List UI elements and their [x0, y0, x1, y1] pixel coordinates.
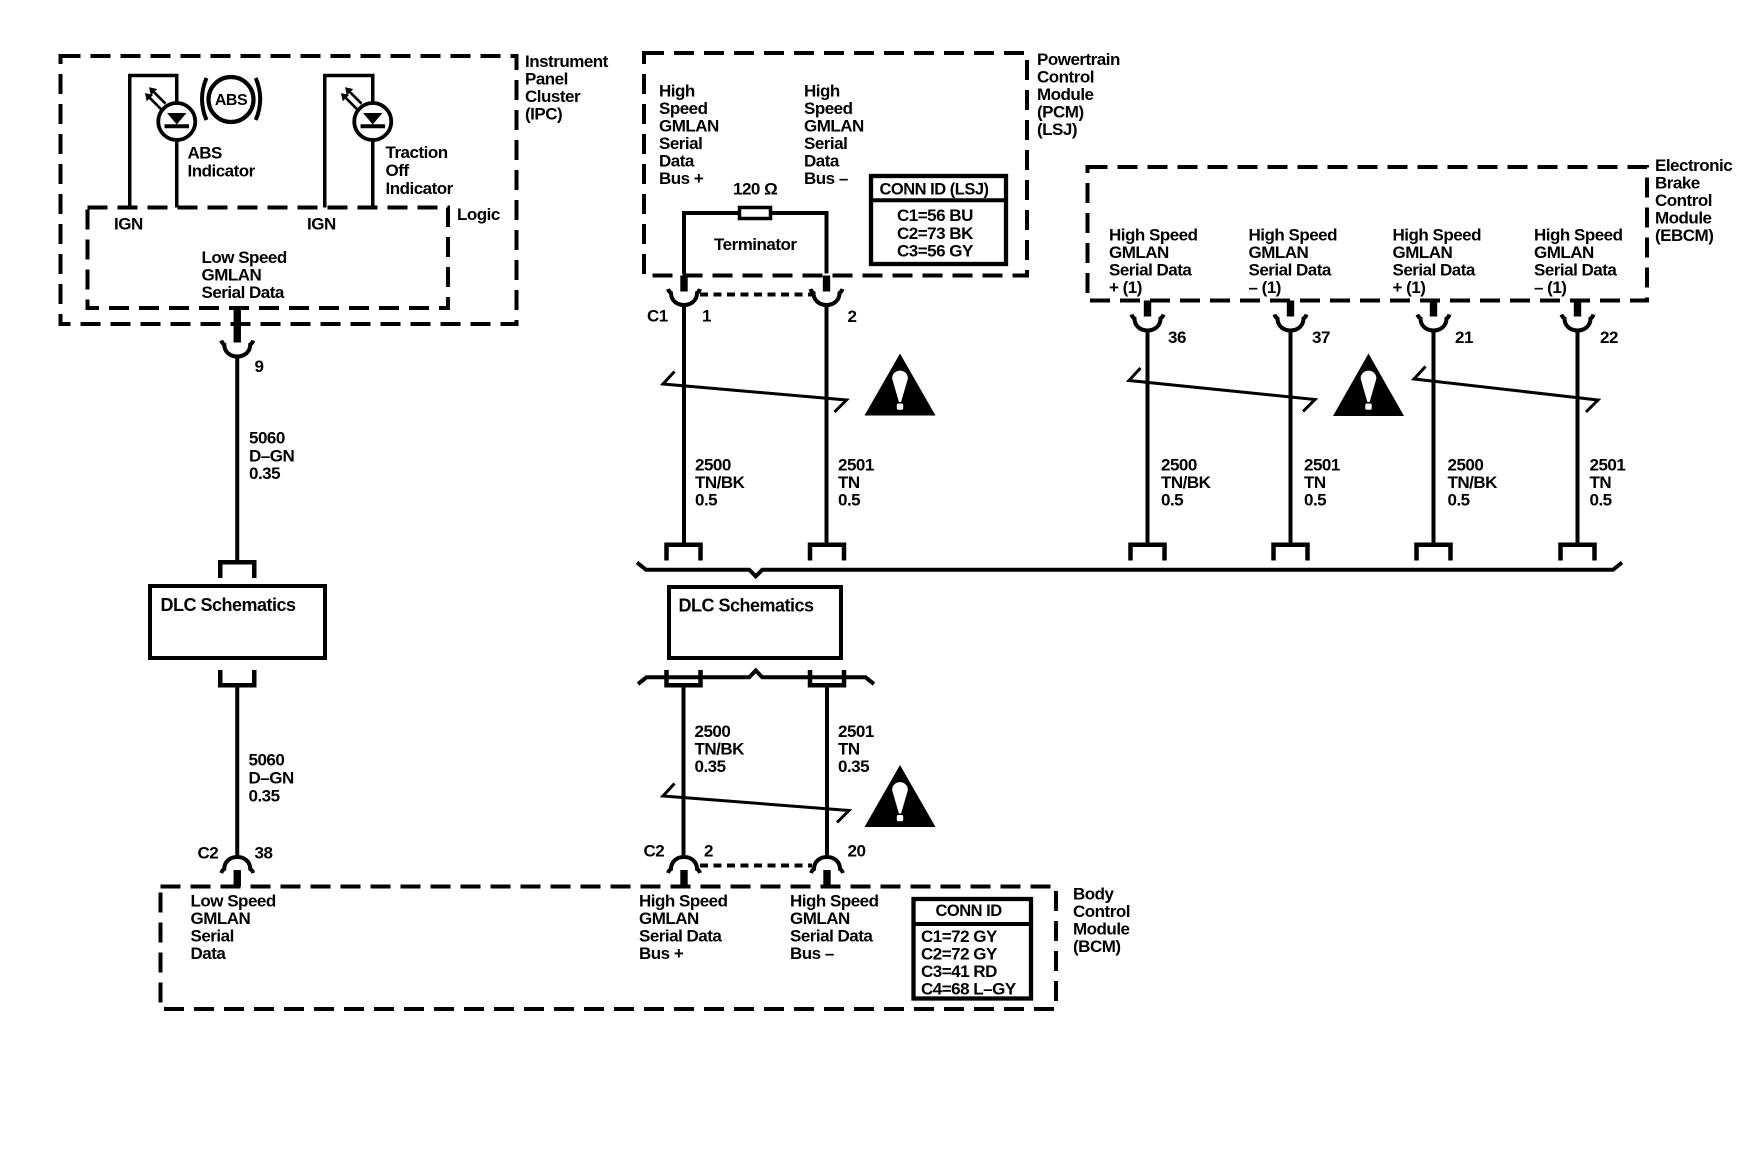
svg-text:CONN ID: CONN ID: [936, 902, 1003, 920]
label High Speed GMLAN Serial Data + (1) (EBCM col 1): [1109, 226, 1198, 298]
svg-text:Off: Off: [386, 161, 410, 180]
svg-text:Bus +: Bus +: [659, 169, 704, 188]
module box Body Control Module (BCM): [161, 887, 1057, 1010]
svg-text:1: 1: [702, 307, 711, 326]
label Traction Off Indicator: [386, 143, 454, 198]
wire label 2501 TN 0.35: [838, 722, 874, 776]
svg-text:Serial Data: Serial Data: [639, 927, 722, 946]
svg-text:0.35: 0.35: [695, 757, 726, 776]
svg-text:ABS: ABS: [215, 92, 248, 109]
terminal below DLC (left): [220, 670, 254, 685]
svg-text:Speed: Speed: [804, 99, 853, 118]
wire L1 (ABS indicator): [175, 138, 179, 208]
LED arrows L1 (ABS indicator): [145, 87, 166, 109]
svg-text:IGN: IGN: [307, 215, 336, 234]
svg-text:Control: Control: [1073, 902, 1130, 921]
svg-text:Serial Data: Serial Data: [1393, 261, 1476, 280]
svg-text:GMLAN: GMLAN: [1249, 243, 1309, 262]
label Low Speed GMLAN Serial Data (BCM): [191, 892, 276, 964]
module box Electronic Brake Control Module (EBCM): [1088, 167, 1648, 301]
svg-text:36: 36: [1168, 328, 1186, 347]
wire 2501 TN (PCM): [825, 305, 829, 544]
connector EBCM pin 36: [1132, 315, 1164, 331]
svg-text:GMLAN: GMLAN: [1109, 243, 1169, 262]
wire EBCM pin 21: [1432, 330, 1436, 543]
svg-text:2500: 2500: [695, 456, 731, 475]
svg-text:0.5: 0.5: [1448, 491, 1470, 510]
wire stub PCM pin 2: [823, 276, 830, 292]
svg-text:High Speed: High Speed: [639, 892, 728, 911]
svg-text:High Speed: High Speed: [790, 892, 879, 911]
terminal bus (EBCM pin 21): [1417, 545, 1451, 561]
wire stub PCM pin 1: [680, 276, 687, 292]
svg-text:2: 2: [848, 307, 857, 326]
wire stub BCM pin 20: [823, 870, 830, 887]
svg-text:0.5: 0.5: [838, 491, 860, 510]
svg-text:2501: 2501: [1304, 456, 1340, 475]
wire 2501 TN (BCM): [825, 688, 829, 859]
label Low Speed GMLAN Serial Data (IPC): [202, 248, 287, 302]
label High Speed GMLAN Serial Data Bus + (BCM): [639, 892, 728, 964]
svg-text:CONN ID (LSJ): CONN ID (LSJ): [880, 181, 989, 199]
connector C1 pin 1: [668, 289, 700, 305]
svg-text:Instrument: Instrument: [525, 52, 609, 71]
label BCM title: [1073, 885, 1130, 957]
wire 5060 D-GN lower: [235, 687, 239, 858]
wire label 2500 TN/BK 0.5 (EBCM 21): [1448, 456, 1499, 510]
svg-text:2: 2: [704, 842, 713, 861]
wire stub EBCM pin 21: [1430, 301, 1437, 317]
svg-text:GMLAN: GMLAN: [790, 909, 850, 928]
svg-text:0.5: 0.5: [1590, 491, 1612, 510]
svg-text:Brake: Brake: [1655, 174, 1700, 193]
svg-text:TN/BK: TN/BK: [1448, 473, 1499, 492]
svg-text:0.5: 0.5: [1304, 491, 1326, 510]
svg-text:(IPC): (IPC): [525, 105, 562, 124]
LED circle L1 (ABS indicator): [158, 103, 195, 140]
wire 2500 TN/BK (PCM): [682, 305, 686, 544]
connector link C2 (dashed): [700, 864, 812, 868]
label High Speed GMLAN Serial Data – (1) (EBCM col 2): [1249, 226, 1338, 298]
svg-text:ABS: ABS: [188, 144, 223, 163]
svg-text:C2: C2: [644, 842, 665, 861]
svg-text:C2: C2: [198, 844, 219, 863]
svg-text:– (1): – (1): [1249, 278, 1281, 297]
module box Powertrain Control Module (PCM): [644, 53, 1027, 276]
svg-text:Serial Data: Serial Data: [790, 927, 873, 946]
wire stub BCM pin 2: [680, 870, 687, 887]
svg-text:Indicator: Indicator: [188, 162, 256, 181]
wire 2500 TN/BK (BCM): [682, 688, 686, 859]
warning triangle (EBCM): [1333, 354, 1404, 417]
label High Speed GMLAN Serial Data – (1) (EBCM col 4): [1534, 226, 1623, 298]
wire EBCM pin 22: [1576, 330, 1580, 543]
svg-text:High: High: [659, 82, 695, 101]
svg-text:D–GN: D–GN: [249, 769, 294, 788]
svg-text:TN: TN: [838, 473, 860, 492]
terminal bus (PCM pin2): [810, 545, 844, 561]
connector C2 pin 38 (BCM): [221, 857, 253, 873]
terminal bus (PCM pin1): [667, 545, 701, 561]
module box Instrument Panel Cluster (IPC): [61, 56, 517, 324]
wire label 2500 TN/BK 0.5 (PCM): [695, 456, 746, 510]
svg-text:Panel: Panel: [525, 70, 568, 89]
svg-text:TN: TN: [1304, 473, 1326, 492]
connector EBCM pin 22: [1562, 315, 1594, 331]
svg-text:IGN: IGN: [114, 215, 143, 234]
terminal bus (EBCM pin 36): [1131, 545, 1165, 561]
logic box: [88, 208, 449, 309]
svg-text:Data: Data: [191, 944, 227, 963]
svg-text:Serial: Serial: [191, 927, 234, 946]
svg-text:High Speed: High Speed: [1393, 226, 1482, 245]
table CONN ID (LSJ): [871, 176, 1006, 264]
svg-text:0.35: 0.35: [249, 464, 280, 483]
table CONN ID (BCM): [914, 899, 1032, 999]
wire label 5060 D-GN 0.35 (upper): [249, 429, 294, 484]
svg-text:D–GN: D–GN: [249, 446, 294, 465]
svg-text:GMLAN: GMLAN: [659, 117, 719, 136]
svg-text:38: 38: [255, 844, 273, 863]
label High Speed GMLAN Serial Data + (1) (EBCM col 3): [1393, 226, 1482, 298]
LED circle L2 (Traction Off indicator): [354, 103, 391, 140]
svg-text:Traction: Traction: [386, 143, 448, 162]
svg-text:Module: Module: [1037, 85, 1094, 104]
lamp frame L1 (ABS indicator): [130, 76, 177, 208]
terminal bus (EBCM pin 37): [1274, 545, 1308, 561]
svg-text:2500: 2500: [1448, 456, 1484, 475]
svg-text:Speed: Speed: [659, 99, 708, 118]
svg-text:Powertrain: Powertrain: [1037, 50, 1120, 69]
svg-text:TN/BK: TN/BK: [695, 473, 746, 492]
svg-text:Low Speed: Low Speed: [191, 892, 276, 911]
svg-text:TN: TN: [838, 740, 860, 759]
svg-text:C1: C1: [647, 307, 668, 326]
svg-text:(PCM): (PCM): [1037, 103, 1084, 122]
svg-text:Serial Data: Serial Data: [202, 283, 285, 302]
connector C1 pin 2: [811, 289, 843, 305]
twisted pair symbol (EBCM left): [1129, 368, 1315, 412]
svg-text:Body: Body: [1073, 885, 1115, 904]
svg-text:GMLAN: GMLAN: [202, 266, 262, 285]
svg-text:(EBCM): (EBCM): [1655, 226, 1713, 245]
svg-text:0.35: 0.35: [249, 787, 280, 806]
connector EBCM pin 37: [1275, 315, 1307, 331]
twisted pair symbol (EBCM right): [1414, 367, 1598, 413]
warning triangle (PCM): [865, 354, 936, 416]
svg-text:2501: 2501: [1590, 456, 1626, 475]
wire 5060 D-GN upper: [235, 356, 239, 561]
svg-text:Data: Data: [659, 152, 695, 171]
wire label 2501 TN 0.5 (EBCM 22): [1590, 456, 1626, 510]
svg-text:DLC Schematics: DLC Schematics: [161, 595, 297, 615]
svg-text:Serial: Serial: [659, 134, 702, 153]
box DLC Schematics (left): [150, 586, 325, 658]
box DLC Schematics (middle): [669, 587, 841, 658]
label High Speed GMLAN Serial Data Bus - (BCM): [790, 892, 879, 964]
svg-text:High Speed: High Speed: [1109, 226, 1198, 245]
svg-text:Serial Data: Serial Data: [1249, 261, 1332, 280]
svg-text:+ (1): + (1): [1393, 278, 1426, 297]
connector link C1 (dashed): [700, 293, 812, 297]
svg-text:GMLAN: GMLAN: [639, 909, 699, 928]
svg-text:(LSJ): (LSJ): [1037, 120, 1077, 139]
svg-text:TN: TN: [1590, 473, 1612, 492]
svg-text:(BCM): (BCM): [1073, 937, 1121, 956]
wire label 2501 TN 0.5 (EBCM 37): [1304, 456, 1340, 510]
lamp frame L2 (Traction Off indicator): [325, 76, 373, 208]
wire terminator right: [772, 213, 827, 274]
svg-text:Control: Control: [1655, 191, 1712, 210]
svg-text:Cluster: Cluster: [525, 87, 581, 106]
twisted pair symbol (PCM): [663, 372, 847, 413]
LED diode L1 (ABS indicator): [165, 113, 189, 126]
wire stub BCM pin 38: [234, 870, 241, 887]
svg-text:GMLAN: GMLAN: [1393, 243, 1453, 262]
brace below DLC: [638, 671, 874, 685]
wire stub IPC pin 9: [234, 308, 241, 343]
wire terminator left: [684, 213, 738, 274]
svg-text:0.35: 0.35: [838, 757, 869, 776]
svg-text:GMLAN: GMLAN: [191, 909, 251, 928]
svg-text:Bus –: Bus –: [790, 944, 834, 963]
resistor R-terminator 120 ohm: [740, 208, 771, 219]
svg-text:5060: 5060: [249, 751, 285, 770]
wire label 2500 TN/BK 0.35: [695, 722, 746, 776]
svg-text:Indicator: Indicator: [386, 179, 454, 198]
svg-text:C1=56 BU: C1=56 BU: [897, 206, 973, 225]
svg-text:C3=56 GY: C3=56 GY: [897, 242, 974, 261]
bus brace (serial data bus): [637, 563, 1622, 577]
svg-text:Terminator: Terminator: [714, 235, 797, 254]
svg-text:37: 37: [1312, 328, 1330, 347]
connector C2 pin 2 (BCM): [668, 857, 700, 873]
wire stub EBCM pin 22: [1574, 301, 1581, 317]
wire stub EBCM pin 36: [1144, 301, 1151, 317]
svg-text:High: High: [804, 82, 840, 101]
svg-text:21: 21: [1455, 328, 1473, 347]
svg-text:Serial Data: Serial Data: [1534, 261, 1617, 280]
svg-text:2501: 2501: [838, 456, 874, 475]
svg-text:Serial: Serial: [804, 134, 847, 153]
svg-text:C3=41 RD: C3=41 RD: [921, 962, 997, 981]
svg-text:Control: Control: [1037, 68, 1094, 87]
wire EBCM pin 36: [1146, 330, 1150, 543]
svg-text:Low Speed: Low Speed: [202, 248, 287, 267]
terminal below DLC (bus-): [810, 670, 844, 685]
svg-text:22: 22: [1600, 328, 1618, 347]
svg-text:2500: 2500: [1161, 456, 1197, 475]
svg-text:Electronic: Electronic: [1655, 156, 1732, 175]
svg-text:Data: Data: [804, 152, 840, 171]
svg-text:0.5: 0.5: [1161, 491, 1183, 510]
svg-text:120 Ω: 120 Ω: [733, 180, 777, 199]
wire label 2500 TN/BK 0.5 (EBCM 36): [1161, 456, 1212, 510]
svg-text:C2=72 GY: C2=72 GY: [921, 944, 998, 963]
svg-text:2500: 2500: [695, 722, 731, 741]
connector EBCM pin 21: [1418, 315, 1450, 331]
wire EBCM pin 37: [1289, 330, 1293, 543]
wire label 2501 TN 0.5 (PCM): [838, 456, 874, 510]
terminal bus (EBCM pin 22): [1561, 545, 1595, 561]
svg-text:9: 9: [255, 357, 264, 376]
label EBCM title: [1655, 156, 1732, 245]
label High Speed GMLAN Serial Data Bus + (PCM): [659, 82, 719, 189]
svg-text:– (1): – (1): [1534, 278, 1566, 297]
warning triangle (BCM): [865, 765, 936, 827]
svg-text:+ (1): + (1): [1109, 278, 1142, 297]
svg-text:Bus +: Bus +: [639, 944, 684, 963]
label IPC title: [525, 52, 609, 124]
twisted pair symbol (BCM): [663, 784, 849, 823]
svg-text:High Speed: High Speed: [1534, 226, 1623, 245]
svg-text:5060: 5060: [249, 429, 285, 448]
svg-text:Logic: Logic: [457, 205, 500, 224]
svg-text:High Speed: High Speed: [1249, 226, 1338, 245]
svg-text:0.5: 0.5: [695, 491, 717, 510]
LED arrows L2 (Traction Off indicator): [341, 87, 362, 109]
svg-text:TN/BK: TN/BK: [695, 740, 746, 759]
svg-text:C2=73 BK: C2=73 BK: [897, 224, 974, 243]
wire stub EBCM pin 37: [1287, 301, 1294, 317]
connector C1 pin 9 (IPC): [221, 341, 253, 357]
svg-text:C1=72 GY: C1=72 GY: [921, 927, 998, 946]
svg-text:Bus –: Bus –: [804, 169, 848, 188]
svg-text:Serial Data: Serial Data: [1109, 261, 1192, 280]
svg-text:Module: Module: [1655, 209, 1712, 228]
terminal at DLC (upper left): [220, 562, 254, 578]
svg-text:20: 20: [848, 842, 866, 861]
svg-text:TN/BK: TN/BK: [1161, 473, 1212, 492]
LED diode L2 (Traction Off indicator): [361, 113, 385, 126]
svg-text:GMLAN: GMLAN: [804, 117, 864, 136]
wire label 5060 D-GN 0.35 (lower): [249, 751, 294, 806]
label ABS Indicator: [188, 144, 256, 181]
svg-text:Module: Module: [1073, 920, 1130, 939]
svg-text:DLC Schematics: DLC Schematics: [679, 596, 815, 616]
svg-text:2501: 2501: [838, 722, 874, 741]
wire L2 (Traction Off indicator): [371, 138, 375, 208]
telltale symbol (ABS): [202, 77, 260, 122]
terminal below DLC (bus+): [667, 670, 701, 685]
connector C2 pin 20 (BCM): [811, 857, 843, 873]
label High Speed GMLAN Serial Data Bus - (PCM): [804, 82, 864, 189]
svg-text:C4=68 L–GY: C4=68 L–GY: [921, 979, 1017, 998]
svg-text:GMLAN: GMLAN: [1534, 243, 1594, 262]
label PCM title: [1037, 50, 1120, 139]
